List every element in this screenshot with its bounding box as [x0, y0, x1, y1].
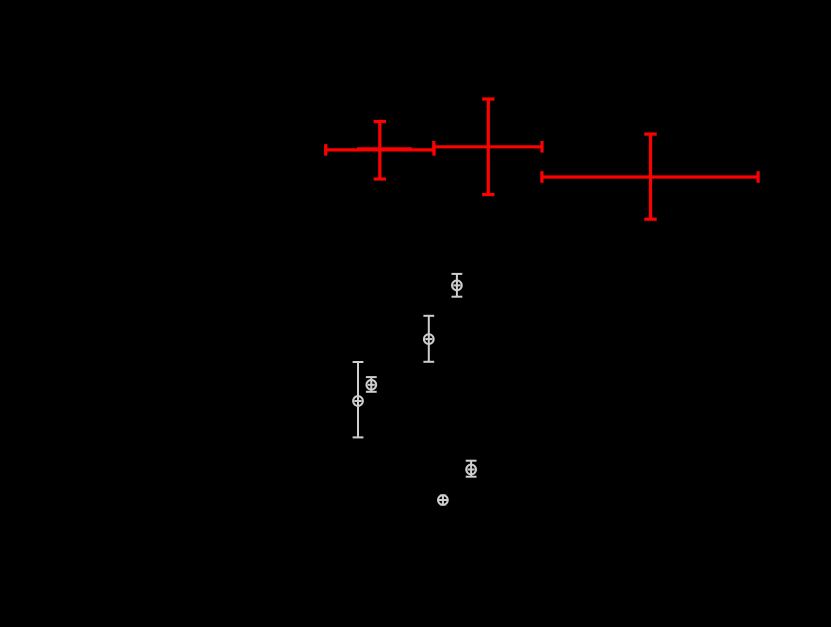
faint ridge above point 1 bar: [357, 147, 412, 149]
grey data point 5: [466, 461, 477, 477]
grey data point 1: [452, 274, 463, 297]
red data point 2 error bars: [434, 99, 542, 195]
grey data point 4: [353, 362, 364, 437]
grey data point 2: [423, 316, 434, 362]
red data point 3 error bars: [542, 134, 758, 219]
red data point 1 error bars: [326, 122, 434, 180]
grey data point 6: [438, 495, 448, 505]
grey data point 3: [366, 377, 377, 392]
